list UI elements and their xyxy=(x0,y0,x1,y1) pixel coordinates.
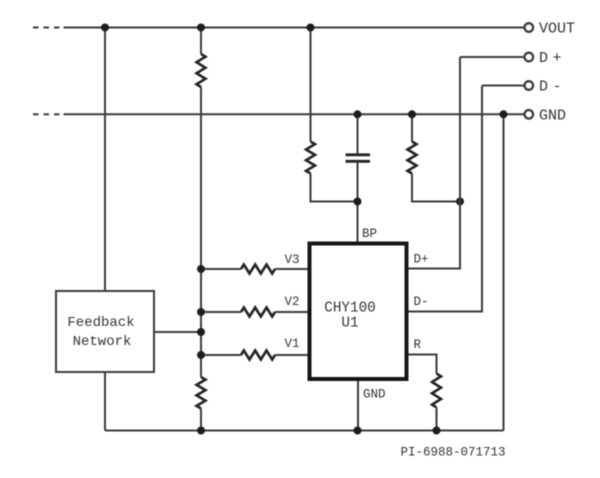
wire R4 to D+ column xyxy=(412,174,460,202)
node bottom rail / GND pin xyxy=(354,427,362,435)
wire V2 row right xyxy=(275,311,308,313)
capacitor C1 lower lead / BP pin wire xyxy=(357,162,359,242)
wire R pin xyxy=(409,355,437,374)
svg-text:CHY100: CHY100 xyxy=(324,301,375,317)
wire D- terminal lead xyxy=(482,85,525,87)
wire V1 row right xyxy=(275,354,308,356)
wire V3 row left xyxy=(201,268,241,270)
svg-text:D+: D+ xyxy=(414,253,429,267)
wire feedback input column xyxy=(104,28,106,292)
resistor R4 upper lead xyxy=(411,114,413,141)
node V3 xyxy=(197,265,205,273)
wire V2 row left xyxy=(201,311,241,313)
op-amp U1 CHY100 IC box xyxy=(310,244,407,380)
node D+ column junction xyxy=(456,198,464,206)
wire bypass branch lower xyxy=(311,174,358,202)
node top rail / bypass branch xyxy=(307,24,315,32)
node bottom rail / center column xyxy=(197,427,205,435)
svg-text:D-: D- xyxy=(539,79,562,96)
capacitor C1 xyxy=(346,155,371,162)
feedback network box xyxy=(56,291,154,372)
svg-text:U1: U1 xyxy=(341,316,358,332)
svg-text:VOUT: VOUT xyxy=(539,21,575,38)
node FB junction xyxy=(197,328,205,336)
wire V1 row left xyxy=(201,354,241,356)
resistor R3 (bypass branch) xyxy=(306,142,315,174)
wire bypass branch from top rail xyxy=(310,28,312,142)
resistor R7 (V1) xyxy=(241,351,275,360)
node V2 xyxy=(197,308,205,316)
resistor R2 (bottom of center column) xyxy=(197,377,206,408)
wire GND pin xyxy=(357,381,359,431)
wire D- column xyxy=(409,86,483,312)
terminal D- xyxy=(525,81,534,90)
resistor R5 (V3) xyxy=(241,265,275,274)
resistor R1 (top of center column) xyxy=(197,54,206,87)
wire V3 row right xyxy=(275,268,308,270)
svg-text:GND: GND xyxy=(539,107,566,124)
wire R8 lower lead xyxy=(436,408,438,431)
terminal GND xyxy=(525,110,534,119)
wire D+ column xyxy=(409,57,461,269)
svg-text:V2: V2 xyxy=(285,295,300,309)
svg-text:D+: D+ xyxy=(539,50,562,67)
wire GND rail xyxy=(33,113,525,115)
node GND rail / C1 xyxy=(354,110,362,118)
node top rail / center column xyxy=(197,24,205,32)
node GND rail / right column xyxy=(500,110,508,118)
node GND rail / R4 xyxy=(408,110,416,118)
svg-text:GND: GND xyxy=(363,388,386,402)
wire GND right column xyxy=(503,114,505,430)
wire bottom rail xyxy=(105,430,504,432)
node BP junction xyxy=(354,198,362,206)
terminal VOUT xyxy=(525,23,534,32)
svg-text:Network: Network xyxy=(73,334,132,350)
capacitor C1 upper lead xyxy=(357,114,359,154)
terminal D+ xyxy=(525,53,534,62)
node V1 xyxy=(197,351,205,359)
wire center column lower xyxy=(200,409,202,431)
node bottom rail / R8 xyxy=(433,427,441,435)
svg-text:R: R xyxy=(414,338,422,352)
wire center column upper xyxy=(200,28,202,55)
resistor R8 (R pin) xyxy=(432,374,441,408)
svg-text:V1: V1 xyxy=(285,337,300,351)
svg-text:V3: V3 xyxy=(285,253,300,267)
node top rail / feedback column xyxy=(101,24,109,32)
wire D+ terminal lead xyxy=(460,56,525,58)
resistor R4 xyxy=(408,142,417,174)
svg-text:D-: D- xyxy=(414,295,429,309)
resistor R6 (V2) xyxy=(241,308,275,317)
svg-text:PI-6988-071713: PI-6988-071713 xyxy=(401,446,506,460)
wire feedback to V-divider xyxy=(154,331,201,333)
wire center column middle xyxy=(200,87,202,377)
wire VOUT top rail xyxy=(33,27,525,29)
svg-text:Feedback: Feedback xyxy=(67,315,134,331)
svg-text:BP: BP xyxy=(362,227,377,241)
wire feedback output column xyxy=(104,372,106,431)
